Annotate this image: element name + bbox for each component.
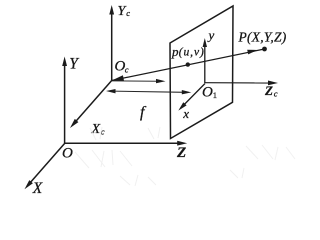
svg-text:(u,v): (u,v) bbox=[179, 47, 205, 59]
svg-text:Z: Z bbox=[264, 83, 273, 98]
wire image y axis bbox=[203, 38, 207, 83]
svg-text:c: c bbox=[125, 65, 129, 75]
svg-text:X: X bbox=[32, 180, 43, 197]
wire f dimension arrow bbox=[106, 89, 191, 94]
wire camera Zc axis right segment bbox=[205, 81, 278, 86]
wire camera Yc axis bbox=[109, 5, 114, 81]
wire world X axis bbox=[25, 143, 66, 189]
svg-text:X: X bbox=[91, 122, 101, 137]
wire image x axis bbox=[178, 84, 205, 111]
wire optical axis Oc to image plane bbox=[112, 79, 166, 83]
wire projection ray Oc-p-P bbox=[112, 49, 265, 81]
svg-text:P(X,Y,Z): P(X,Y,Z) bbox=[238, 30, 287, 45]
wire camera Xc axis bbox=[70, 81, 112, 129]
svg-text:O: O bbox=[62, 146, 73, 162]
node p point bbox=[186, 62, 190, 66]
svg-text:1: 1 bbox=[213, 90, 217, 100]
svg-text:p: p bbox=[171, 44, 179, 59]
svg-text:O: O bbox=[202, 85, 213, 101]
wire world Z axis bbox=[65, 141, 188, 146]
svg-text:Y: Y bbox=[69, 56, 79, 73]
image plane bbox=[170, 6, 233, 139]
svg-text:Z: Z bbox=[176, 145, 186, 161]
svg-text:y: y bbox=[207, 28, 215, 43]
wire world Y axis bbox=[62, 57, 67, 144]
svg-text:c: c bbox=[126, 8, 130, 18]
svg-text:c: c bbox=[274, 89, 278, 99]
node P point bbox=[262, 47, 267, 52]
svg-text:x: x bbox=[182, 106, 189, 121]
faint bleedthrough marks bbox=[75, 127, 295, 186]
